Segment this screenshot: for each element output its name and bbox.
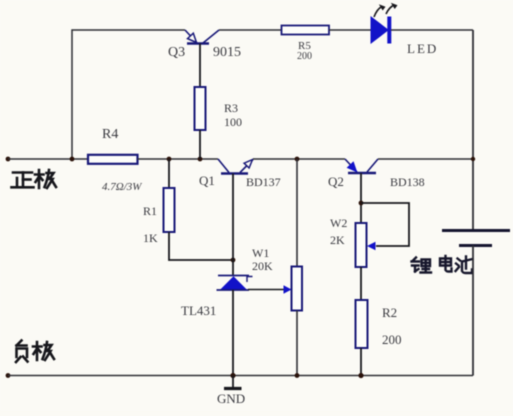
- svg-text:LED: LED: [407, 41, 438, 56]
- node positive rail left endpoint: [6, 157, 11, 162]
- label Q2: [328, 174, 344, 189]
- svg-text:9015: 9015: [213, 45, 241, 60]
- node junction GND: [230, 373, 235, 378]
- wire W1 bottom lead: [296, 311, 298, 376]
- wire Q2 collector to right rail: [378, 158, 473, 160]
- wire TL431 ref to W1 wiper: [248, 289, 284, 291]
- label R3: [224, 101, 238, 115]
- label TL431: [181, 303, 216, 318]
- svg-text:Q1: Q1: [199, 173, 215, 188]
- resistor R2: [356, 300, 368, 348]
- wire R2 bottom lead: [360, 348, 362, 376]
- svg-text:1K: 1K: [143, 231, 158, 245]
- svg-text:W2: W2: [330, 216, 347, 230]
- svg-text:BD137: BD137: [246, 175, 281, 189]
- node junction R1 top: [167, 157, 172, 162]
- battery BT1 plates: [442, 231, 510, 246]
- wire Q1 emitter to Q2 emitter: [253, 158, 345, 160]
- svg-text:GND: GND: [217, 391, 245, 406]
- node junction R2 bottom: [358, 373, 363, 378]
- node junction W1 bottom: [295, 373, 300, 378]
- wire right rail upper (to battery +): [472, 30, 474, 230]
- wire TL431 anode down to bottom rail: [232, 290, 234, 376]
- resistor R3: [195, 87, 206, 130]
- ground symbol GND: [224, 376, 242, 389]
- label R5: [298, 40, 311, 52]
- svg-text:200: 200: [297, 51, 312, 62]
- wire R3 top lead (Q3 base): [199, 44, 201, 88]
- label 9015: [213, 45, 241, 60]
- wire bottom rail: [8, 375, 473, 377]
- node junction right rail: [471, 157, 475, 161]
- label 2K (W2 value): [330, 233, 345, 247]
- label R4: [102, 127, 118, 142]
- svg-text:4.7Ω/3W: 4.7Ω/3W: [102, 181, 142, 193]
- label W1: [252, 246, 269, 260]
- svg-text:R1: R1: [143, 204, 157, 218]
- node junction W1 top: [295, 157, 300, 162]
- wire R4 to Q1 collector: [138, 158, 219, 160]
- wire W1 top lead: [296, 159, 298, 267]
- node negative rail left endpoint: [6, 373, 11, 378]
- svg-text:Q3: Q3: [168, 45, 185, 60]
- node junction R1/base: [231, 258, 236, 263]
- svg-text:20K: 20K: [252, 259, 273, 273]
- wire R1 top lead: [168, 159, 170, 188]
- wire positive rail to R4: [8, 158, 88, 160]
- wire LED to right rail: [391, 29, 473, 31]
- svg-text:TL431: TL431: [181, 303, 216, 318]
- wire Q1 base down to TL431: [232, 174, 234, 276]
- node junction W2 top / feedback: [359, 201, 364, 206]
- LED D1: [371, 3, 398, 44]
- label Q3: [168, 45, 185, 60]
- node junction R3 bottom: [198, 157, 203, 162]
- transistor Q2 (PNP BD138, inline on rail, base down): [345, 159, 378, 173]
- label 20K (W1 value): [252, 259, 273, 273]
- wire Q2 base down to W2: [360, 173, 362, 223]
- wire R3 bottom lead: [199, 130, 201, 159]
- label LED: [407, 41, 438, 56]
- label R2: [382, 305, 397, 320]
- label 锂电池 (lithium battery): [412, 256, 473, 273]
- W2 wiper arrow: [367, 242, 376, 250]
- svg-text:R2: R2: [382, 305, 397, 320]
- svg-text:BD138: BD138: [390, 175, 425, 189]
- svg-text:100: 100: [224, 115, 242, 129]
- node junction top-left vertical/rail: [70, 157, 75, 162]
- transistor Q1 (NPN BD137, inline on rail, base down): [218, 159, 253, 174]
- wire R1 bottom to Q1 base line: [169, 232, 233, 260]
- label 100 (R3 value): [224, 115, 242, 129]
- svg-text:R3: R3: [224, 101, 238, 115]
- wire W2 to R2: [360, 267, 362, 300]
- resistor R4: [88, 155, 138, 164]
- label R1: [143, 204, 157, 218]
- label W2: [330, 216, 347, 230]
- TL431 U1: [217, 276, 253, 291]
- transistor Q3 (PNP 9015, inline on top wire, base down): [185, 30, 219, 44]
- label 1K (R1 value): [143, 231, 158, 245]
- label 200 (R2 value): [382, 332, 402, 347]
- wire Q3 collector to R5: [219, 29, 281, 31]
- svg-text:200: 200: [382, 332, 402, 347]
- label 正极 (positive terminal): [12, 170, 57, 188]
- wire right rail lower (battery - to bottom rail): [472, 246, 474, 376]
- potentiometer W1: [292, 267, 303, 311]
- label 4.7Ω/3W (R4 value): [102, 181, 142, 193]
- label GND: [217, 391, 245, 406]
- resistor R5: [282, 26, 330, 35]
- wire feedback loop to W2 wiper: [361, 203, 409, 246]
- svg-text:R4: R4: [102, 127, 118, 142]
- svg-text:2K: 2K: [330, 233, 345, 247]
- label 负极 (negative terminal): [16, 341, 54, 363]
- label BD137: [246, 175, 281, 189]
- label 200 (R5 value): [297, 51, 312, 62]
- label BD138: [390, 175, 425, 189]
- svg-text:Q2: Q2: [328, 174, 344, 189]
- potentiometer W2: [356, 223, 367, 267]
- resistor R1: [164, 188, 175, 232]
- svg-text:W1: W1: [252, 246, 269, 260]
- wire R5 to LED: [329, 29, 371, 31]
- W1 wiper arrow: [284, 285, 292, 293]
- wire top-left vertical from node to Q3 emitter line: [72, 30, 185, 159]
- label Q1: [199, 173, 215, 188]
